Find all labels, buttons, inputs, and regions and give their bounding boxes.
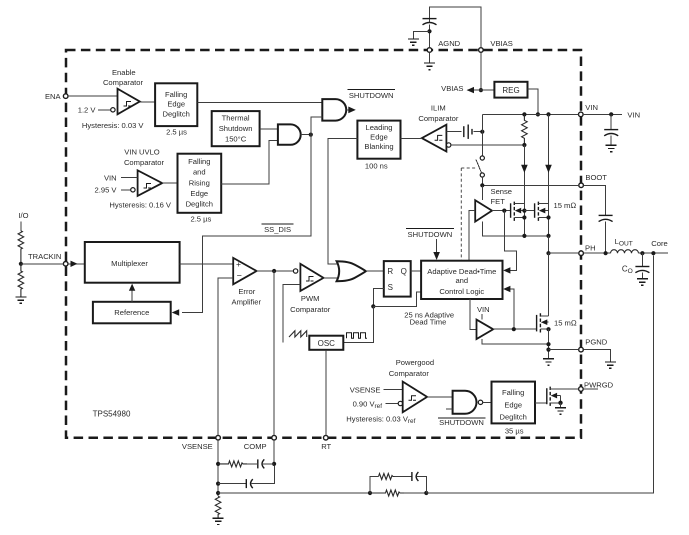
- wire AND2 out to junction: [301, 134, 311, 136]
- arrow SHUTDOWN output: [346, 109, 349, 111]
- svg-text:Enable: Enable: [112, 68, 136, 77]
- block Falling and Rising Edge Deglitch: [178, 154, 222, 213]
- block Falling Edge Deglitch pg: [492, 382, 536, 424]
- wire cap to PH: [605, 221, 607, 253]
- wire NAND to deglitch: [483, 401, 492, 403]
- wire PWRGD external stub: [583, 388, 598, 390]
- svg-text:Comparator: Comparator: [103, 78, 144, 87]
- wire upper branch right: [417, 477, 426, 494]
- wire VSENSE below pin: [217, 440, 219, 496]
- wire comparator to deglitch: [140, 101, 155, 103]
- flip-flop RS latch: [384, 261, 411, 297]
- resistor divider lower: [18, 264, 24, 297]
- transistor Q2 main high-side 15 mOhm: [535, 202, 551, 221]
- wire deglitch2 to AND2: [221, 140, 278, 184]
- svg-text:PWM: PWM: [301, 294, 320, 303]
- capacitor CO: [635, 267, 649, 273]
- op-amp Error Amplifier: [233, 258, 256, 284]
- svg-text:SHUTDOWN: SHUTDOWN: [439, 418, 484, 427]
- svg-text:Edge: Edge: [504, 401, 522, 410]
- arrow shutdown down: [433, 252, 440, 260]
- svg-text:SHUTDOWN: SHUTDOWN: [408, 230, 453, 239]
- wire gate sense feedback to control logic: [504, 211, 516, 271]
- resistor sense: [522, 114, 528, 145]
- svg-text:2.95 V: 2.95 V: [95, 186, 118, 195]
- inverting bubble pg: [398, 401, 402, 405]
- svg-text:2.5 µs: 2.5 µs: [190, 215, 211, 224]
- wire junction to AND1 lower input: [311, 117, 323, 135]
- wire CO to ground: [641, 272, 643, 278]
- arrow to VBIAS label: [467, 87, 474, 93]
- svg-text:OSC: OSC: [318, 339, 336, 348]
- wire control logic to lowside driver: [470, 299, 477, 329]
- junction battery node: [480, 130, 484, 134]
- capacitor comp C1: [258, 459, 265, 468]
- wire PH pin to inductor: [583, 252, 610, 254]
- arrow trackin: [71, 261, 78, 267]
- svg-text:S: S: [388, 283, 393, 292]
- wire feedback mid: [404, 492, 426, 494]
- wire driver input from control logic: [469, 211, 475, 261]
- svg-text:AGND: AGND: [438, 39, 460, 48]
- svg-text:VIN: VIN: [104, 173, 117, 182]
- block Adaptive Dead-Time and Control Logic: [421, 261, 502, 299]
- wire Reference to multiplexer: [131, 288, 133, 302]
- wire AGND pin to ground below: [429, 52, 431, 62]
- svg-text:Hysteresis: 0.03 Vref: Hysteresis: 0.03 Vref: [346, 415, 415, 426]
- bubble ILIM inverting input: [447, 143, 451, 147]
- svg-text:2.5 µs: 2.5 µs: [166, 127, 187, 136]
- svg-text:Shutdown: Shutdown: [219, 124, 253, 133]
- wire I/O to resistor: [20, 222, 22, 231]
- svg-text:35 µs: 35 µs: [505, 427, 524, 436]
- wire BOOT net: [482, 184, 579, 186]
- wire rail down to PH: [548, 236, 550, 253]
- arrow current FET2: [545, 165, 552, 173]
- svg-text:Hysteresis: 0.03 V: Hysteresis: 0.03 V: [82, 121, 145, 130]
- junction COMP network: [272, 462, 276, 466]
- svg-text:BOOT: BOOT: [585, 173, 607, 182]
- pin COMP: [272, 435, 277, 440]
- transistor Q3 low-side 15 mOhm: [537, 313, 551, 332]
- svg-text:Comparator: Comparator: [290, 305, 331, 314]
- transistor Q1 sense FET: [511, 202, 527, 221]
- pin PH: [579, 251, 584, 256]
- wire COMP below pin: [273, 440, 275, 464]
- svg-text:Core: Core: [651, 239, 667, 248]
- pin VIN: [579, 112, 584, 117]
- wire TRACKIN to pin: [21, 263, 64, 265]
- resistor feedback R1: [370, 490, 406, 496]
- wire VBIAS pin riser: [480, 52, 482, 90]
- pin ENA: [63, 94, 68, 99]
- svg-text:Deglitch: Deglitch: [499, 413, 526, 422]
- svg-text:Comparator: Comparator: [389, 369, 430, 378]
- svg-text:150°C: 150°C: [225, 134, 247, 143]
- svg-text:VSENSE: VSENSE: [350, 385, 381, 394]
- svg-text:−: −: [237, 271, 242, 281]
- resistor feedforward R2: [379, 474, 397, 480]
- svg-text:Thermal: Thermal: [222, 114, 250, 123]
- svg-text:R: R: [387, 267, 393, 276]
- wire deglitch to AND1: [197, 102, 322, 104]
- block Falling Edge Deglitch: [155, 83, 197, 126]
- ground PGND external: [605, 362, 616, 368]
- svg-text:TPS54980: TPS54980: [93, 410, 131, 419]
- inverting bubble: [111, 108, 115, 112]
- wire PWM ramp input: [283, 285, 300, 343]
- op-amp PWM Comparator: [300, 264, 323, 291]
- op-amp Enable Comparator: [118, 89, 140, 115]
- wire BOOT to sense driver: [481, 185, 483, 200]
- capacitor feedforward C3: [412, 472, 419, 481]
- arrow into control logic right upper: [503, 267, 510, 273]
- wire REG output to VIN rail: [528, 89, 538, 114]
- svg-text:PH: PH: [585, 243, 596, 252]
- svg-text:Amplifier: Amplifier: [232, 297, 262, 306]
- svg-text:Falling: Falling: [188, 157, 210, 166]
- wire FET2 column: [548, 114, 550, 235]
- wire lowside source to PGND: [548, 329, 550, 358]
- wire driver to lowside gate: [493, 328, 536, 330]
- wire gate link FET1 to FET2: [524, 210, 534, 212]
- svg-text:VIN UVLO: VIN UVLO: [124, 148, 160, 157]
- net SHUTDOWN label bottom: [438, 418, 486, 427]
- wire clock riser from OSC: [343, 306, 373, 342]
- wire 1.2V to inverting input: [98, 109, 111, 111]
- wire ILIM noninv input: [446, 131, 461, 133]
- junction rail at FET2 column: [546, 112, 550, 116]
- junction VIN ext cap: [609, 112, 613, 116]
- capacitor comp C2: [246, 479, 253, 488]
- wire ILIM out to LEB: [401, 138, 422, 140]
- clock glyph: [347, 333, 368, 339]
- svg-text:100 ns: 100 ns: [365, 161, 388, 170]
- wire pg comparator to NAND: [427, 396, 453, 398]
- wire cap to ground: [610, 136, 612, 145]
- svg-text:and: and: [455, 276, 468, 285]
- wire ILIM inv input to sense node: [451, 144, 525, 146]
- wire PH to pin: [549, 252, 579, 254]
- svg-text:1.2 V: 1.2 V: [78, 106, 97, 115]
- arrow current FET1: [521, 165, 528, 173]
- wire pwrgd source to ground: [560, 403, 562, 408]
- node Core: [651, 251, 655, 255]
- wire VIN tick: [481, 314, 483, 320]
- sawtooth ramp glyph: [289, 331, 307, 337]
- ground below AGND pin: [424, 63, 435, 70]
- svg-text:and: and: [193, 168, 206, 177]
- oscillator OSC: [309, 336, 343, 350]
- ground agnd-left: [408, 39, 419, 45]
- svg-text:Powergood: Powergood: [396, 358, 434, 367]
- svg-text:ENA: ENA: [45, 92, 62, 101]
- resistor divider upper: [18, 231, 24, 264]
- svg-text:RT: RT: [321, 442, 331, 451]
- svg-text:PGND: PGND: [585, 337, 607, 346]
- net SHUTDOWN label mid: [406, 229, 454, 239]
- arrow into Reference: [172, 309, 180, 315]
- wire source rail: [482, 222, 548, 236]
- bubble NAND output: [478, 400, 482, 404]
- resistor VSENSE lower divider: [215, 496, 221, 517]
- buffer lowside gate driver: [477, 320, 494, 339]
- junction comp RC: [216, 462, 220, 466]
- capacitor VIN external: [604, 130, 618, 136]
- wire battery to node: [474, 131, 483, 133]
- and-gate U1 shutdown: [322, 99, 346, 121]
- wire PGND to pin: [549, 349, 579, 351]
- wire inductor to Core: [639, 252, 669, 254]
- junction bootstrap cap on PH: [604, 251, 608, 255]
- block Multiplexer: [85, 242, 180, 283]
- pin RT: [324, 435, 329, 440]
- wire COMP riser: [273, 271, 275, 435]
- buffer sense FET driver: [475, 200, 492, 221]
- wire OSC to RT pin: [325, 350, 327, 436]
- svg-text:Rising: Rising: [189, 178, 210, 187]
- junction TRACKIN node: [19, 262, 23, 266]
- wire to ext VIN cap: [610, 114, 612, 129]
- ground VIN ext: [606, 145, 617, 151]
- ground PGND internal: [543, 359, 554, 365]
- switch ILIM select: [476, 156, 484, 177]
- wire to feedforward cap: [395, 476, 412, 478]
- svg-text:Reference: Reference: [114, 308, 149, 317]
- inductor L-OUT: [611, 250, 639, 254]
- junction PH node: [546, 251, 550, 255]
- wire clock to control logic: [373, 292, 421, 306]
- op-amp ILIM comparator: [422, 125, 447, 152]
- svg-text:Edge: Edge: [370, 133, 388, 142]
- pin PGND: [579, 347, 584, 352]
- wire top AGND-VBIAS link: [430, 7, 481, 48]
- wire rail corner to switch: [481, 114, 483, 155]
- junction OSC clock node: [371, 304, 375, 308]
- wire comparator to deglitch2: [162, 182, 177, 184]
- block Leading Edge Blanking: [357, 121, 400, 159]
- svg-text:Deglitch: Deglitch: [162, 109, 189, 118]
- svg-text:Deglitch: Deglitch: [186, 200, 213, 209]
- svg-text:Blanking: Blanking: [364, 142, 393, 151]
- wire lowside gate feedback: [510, 289, 514, 329]
- wire shutdown arrow into control logic: [436, 239, 438, 254]
- junction comp C2: [216, 482, 220, 486]
- svg-text:I/O: I/O: [18, 211, 28, 220]
- svg-text:Edge: Edge: [190, 189, 208, 198]
- battery offset threshold: [464, 125, 472, 139]
- junction lowside gate: [512, 327, 516, 331]
- svg-text:VIN: VIN: [477, 305, 490, 314]
- svg-text:PWRGD: PWRGD: [584, 380, 614, 389]
- wire deglitch to pwrgd gate: [535, 402, 547, 404]
- ground divider: [15, 297, 26, 303]
- arrow into control logic right lower: [503, 286, 510, 292]
- junction gate node: [502, 209, 506, 213]
- svg-text:Leading: Leading: [365, 123, 392, 132]
- wire TRACKIN pin to multiplexer: [68, 263, 85, 265]
- op-amp VIN UVLO Comparator: [138, 170, 163, 196]
- wire VIN external: [583, 113, 622, 115]
- pin BOOT: [579, 183, 584, 188]
- wire dashed control vertical: [460, 168, 462, 261]
- wire driver output gate node: [492, 210, 511, 212]
- junction sense node: [522, 143, 526, 147]
- wire shutdown stub input: [446, 408, 453, 410]
- svg-text:ILIM: ILIM: [431, 103, 446, 112]
- svg-text:15 mΩ: 15 mΩ: [554, 319, 577, 328]
- svg-text:Comparator: Comparator: [418, 114, 459, 123]
- inverting bubble: [131, 188, 135, 192]
- ground CO: [637, 279, 648, 285]
- wire thermal to AND2: [260, 128, 278, 130]
- svg-text:Falling: Falling: [502, 388, 524, 397]
- wire to left ground: [413, 31, 429, 38]
- net SS_DIS label: [262, 224, 294, 234]
- transistor Q4 PWRGD open drain: [547, 387, 579, 406]
- svg-text:VBIAS: VBIAS: [441, 84, 463, 93]
- nand-gate U4: [453, 391, 477, 414]
- junction feedback takeoff: [216, 491, 220, 495]
- wire 2.95V to inverting input: [121, 189, 131, 191]
- wire upper branch left: [370, 477, 379, 494]
- block Reference: [93, 302, 171, 324]
- wire C2 to COMP riser: [251, 466, 274, 484]
- junction rail at sense resistor: [522, 112, 526, 116]
- junction REG on rail: [536, 112, 540, 116]
- svg-text:Hysteresis: 0.16 V: Hysteresis: 0.16 V: [109, 201, 172, 210]
- junction feedback left: [368, 491, 372, 495]
- wire CO branch: [641, 253, 643, 266]
- wire S input from OSC: [373, 289, 384, 307]
- svg-text:VIN: VIN: [585, 103, 598, 112]
- wire BOOT pin to bootstrap cap: [583, 185, 605, 215]
- wire VIN to comparator: [121, 177, 138, 179]
- capacitor bootstrap: [599, 215, 613, 221]
- svg-text:SHUTDOWN: SHUTDOWN: [349, 91, 394, 100]
- wire ENA to comparator: [68, 95, 118, 97]
- pin VSENSE: [216, 435, 221, 440]
- and-gate U2: [278, 124, 301, 144]
- junction feedback right: [424, 491, 428, 495]
- wire lowside drain to PH: [548, 253, 550, 316]
- wire Q to control logic: [411, 270, 421, 272]
- wire 0.90Vref to inverting input: [386, 403, 399, 405]
- svg-text:VSENSE: VSENSE: [182, 442, 213, 451]
- svg-text:+: +: [236, 259, 241, 269]
- svg-text:Error: Error: [238, 287, 255, 296]
- capacitor on AGND branch: [423, 19, 437, 25]
- svg-text:Multiplexer: Multiplexer: [111, 259, 148, 268]
- wire PWM out to OR: [324, 277, 339, 279]
- pin AGND: [427, 48, 432, 53]
- svg-text:VIN: VIN: [627, 110, 640, 119]
- wire VBIAS to REG: [481, 89, 495, 91]
- svg-text:Comparator: Comparator: [124, 158, 165, 167]
- op-amp Powergood Comparator: [403, 382, 427, 413]
- svg-text:Dead Time: Dead Time: [410, 318, 447, 327]
- wire VSENSE to pg comparator: [384, 389, 403, 391]
- or-gate U3: [337, 261, 366, 281]
- pin PWRGD: [579, 387, 584, 392]
- svg-text:15 mΩ: 15 mΩ: [554, 201, 577, 210]
- pin TRACKIN: [63, 262, 68, 267]
- junction BOOT at driver: [480, 183, 484, 187]
- wire OR to flip-flop R: [366, 270, 384, 272]
- wire multiplexer to error amp: [180, 263, 234, 265]
- svg-text:Falling: Falling: [165, 90, 187, 99]
- block Thermal Shutdown 150C: [212, 111, 260, 146]
- regulator REG: [494, 82, 527, 98]
- svg-text:Q: Q: [401, 267, 407, 276]
- wire error amp inv input riser VSENSE: [218, 278, 233, 436]
- wire SS_DIS net to Reference: [182, 135, 311, 313]
- arrow reference up: [129, 284, 135, 291]
- wire driver return: [482, 339, 548, 344]
- svg-text:REG: REG: [502, 86, 519, 95]
- junction AGND cap/ground: [427, 29, 431, 33]
- net SHUTDOWN label top: [348, 90, 396, 100]
- wire C2 branch: [218, 483, 246, 485]
- wire error amp out: [257, 270, 294, 272]
- junction PGND node: [546, 348, 550, 352]
- wire PGND external: [583, 350, 610, 362]
- bubble PWM inverting input: [293, 269, 297, 273]
- wire switch to BOOT node: [481, 177, 483, 185]
- junction COMP node: [272, 269, 276, 273]
- svg-text:Sense: Sense: [491, 187, 513, 196]
- wire RC to COMP: [247, 463, 258, 465]
- svg-text:VBIAS: VBIAS: [490, 39, 512, 48]
- wire dashed control to switch: [461, 167, 477, 169]
- wire VBIAS arrow feed: [468, 89, 481, 91]
- wire VIN rail: [482, 113, 578, 115]
- IC boundary dashed box TPS54980: [66, 50, 581, 438]
- wire LEB output to OR gate: [328, 139, 358, 264]
- junction FET2 source on rail: [546, 234, 550, 238]
- junction FET1 source on rail: [522, 234, 526, 238]
- junction CO tap: [640, 251, 644, 255]
- ground VSENSE divider: [213, 518, 224, 524]
- wire feedback bottom run: [218, 492, 370, 494]
- svg-text:Adaptive Dead•Time: Adaptive Dead•Time: [427, 267, 496, 276]
- svg-text:Edge: Edge: [167, 100, 185, 109]
- junction AND2 output: [309, 133, 313, 137]
- wire sense node down FET1 column: [523, 145, 525, 236]
- junction driver return: [546, 342, 550, 346]
- svg-text:TRACKIN: TRACKIN: [28, 252, 61, 261]
- node VBIAS internal: [479, 88, 483, 92]
- ground PWRGD fet: [555, 408, 566, 414]
- svg-text:FET: FET: [491, 197, 506, 206]
- svg-text:COMP: COMP: [244, 442, 267, 451]
- svg-text:Control Logic: Control Logic: [439, 287, 484, 296]
- resistor comp R3: [218, 461, 247, 467]
- wire feedback to Core: [426, 255, 653, 493]
- wire AGND cap to node: [429, 25, 431, 48]
- svg-text:SS_DIS: SS_DIS: [264, 225, 291, 234]
- pin VBIAS: [479, 48, 484, 53]
